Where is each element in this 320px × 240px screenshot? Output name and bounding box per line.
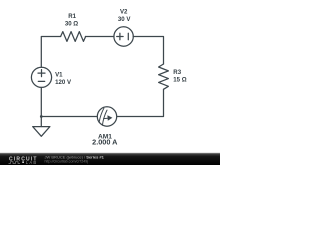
ground symbol (triangle)	[33, 127, 50, 137]
voltage source V1 minus sign	[38, 80, 44, 82]
svg-text:V1: V1	[55, 71, 63, 78]
wire: V2 right to top-right corner down to R3 top	[133, 37, 163, 65]
voltage source V2 minus sign (rotated, vertical bar)	[127, 33, 129, 39]
wire: R3 bottom to bottom-right corner to AM1 right	[117, 89, 163, 116]
ammeter AM1 arrow shaft	[104, 117, 108, 119]
ammeter AM1 arrow head	[107, 115, 112, 121]
voltage source V2 (circle)	[114, 27, 133, 46]
svg-text:30 V: 30 V	[118, 16, 131, 23]
ammeter AM1 (circle)	[97, 107, 116, 126]
wire: AM1 left to junction to V1 bottom	[41, 88, 97, 117]
svg-text:15 Ω: 15 Ω	[173, 77, 186, 84]
svg-text:R3: R3	[173, 69, 181, 76]
wire: junction to ground stub	[40, 117, 42, 127]
ammeter AM1 needle arcs	[99, 108, 107, 125]
voltage source V2 plus sign	[117, 33, 123, 39]
CircuitLab logo dot	[22, 161, 24, 163]
wire left: V1 top to top-left corner to R1	[41, 37, 60, 68]
junction dot (node)	[40, 115, 43, 118]
svg-text:30 Ω: 30 Ω	[65, 20, 78, 27]
svg-text:R1: R1	[68, 13, 76, 20]
resistor R3 (zigzag)	[159, 64, 169, 89]
svg-text:120 V: 120 V	[55, 79, 72, 86]
svg-text:V2: V2	[120, 9, 128, 16]
wire: R1 right to V2 left	[85, 36, 114, 38]
svg-text:LAB: LAB	[26, 160, 38, 165]
voltage source V1 (circle)	[31, 67, 51, 87]
svg-text:2.000 A: 2.000 A	[92, 138, 118, 147]
voltage source V1 plus sign	[38, 70, 45, 77]
CircuitLab logo waveform	[9, 162, 21, 164]
svg-text:http://circuitlab.com/c/7249j: http://circuitlab.com/c/7249j	[45, 159, 89, 163]
resistor R1 (zigzag)	[61, 32, 86, 42]
